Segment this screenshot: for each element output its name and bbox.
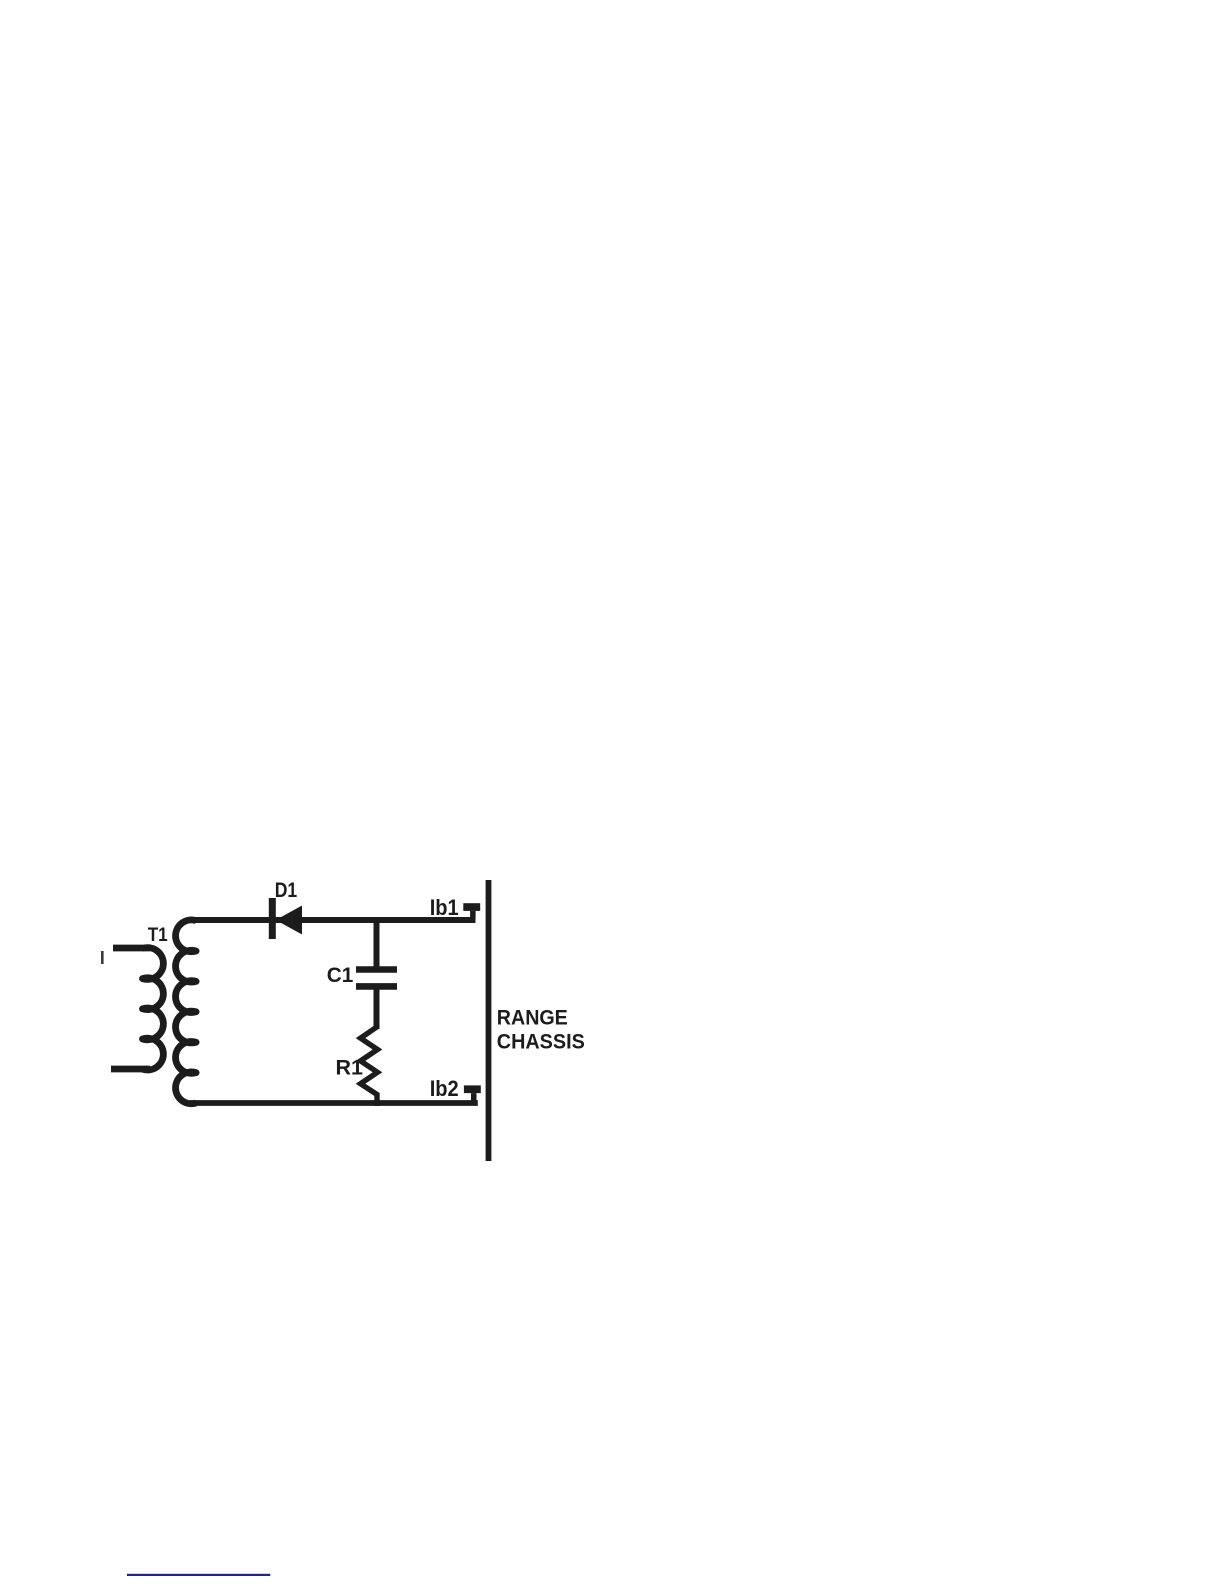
svg-text:CHASSIS: CHASSIS: [497, 1031, 585, 1054]
capacitor C1 bottom plate: [356, 983, 397, 990]
svg-text:T1: T1: [148, 924, 168, 946]
capacitor C1 top plate: [356, 966, 397, 973]
transformer T1 primary winding: [111, 948, 163, 1070]
chassis boundary line: [486, 880, 492, 1161]
diode D1 cathode bar: [269, 898, 276, 939]
hyperlink underline (bottom left): [127, 1574, 270, 1576]
diode D1 triangle: [276, 906, 302, 935]
svg-text:R1: R1: [336, 1056, 364, 1080]
resistor R1 zigzag: [361, 1027, 378, 1106]
svg-text:RANGE: RANGE: [497, 1007, 568, 1030]
terminal Ib1 stem: [470, 911, 476, 918]
stray mark I (left edge): [101, 951, 104, 964]
svg-text:D1: D1: [275, 879, 298, 902]
terminal Ib1 bar: [463, 903, 480, 911]
svg-text:Ib1: Ib1: [430, 895, 459, 920]
node: junction of capacitor branch with top wire: [374, 917, 380, 967]
wire: bottom (secondary to Ib2): [190, 1100, 478, 1106]
wire: top (secondary to Ib1): [190, 917, 476, 923]
terminal Ib2 stem: [471, 1093, 477, 1101]
wire: capacitor to resistor: [374, 986, 380, 1029]
svg-text:Ib2: Ib2: [430, 1076, 459, 1101]
svg-text:C1: C1: [327, 963, 354, 987]
terminal Ib2 bar: [464, 1085, 481, 1093]
transformer T1 secondary winding: [176, 920, 197, 1104]
